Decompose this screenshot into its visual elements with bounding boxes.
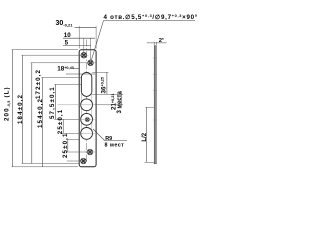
svg-text:30-0,21: 30-0,21 bbox=[56, 20, 74, 27]
svg-text:200-0,5 (L): 200-0,5 (L) bbox=[4, 86, 11, 121]
dim 25 first extension line bbox=[62, 132, 80, 134]
dim 184 line bbox=[22, 55, 24, 163]
centerline hole B bbox=[87, 62, 96, 64]
dim 25 first line bbox=[62, 119, 64, 133]
svg-text:36+0,25: 36+0,25 bbox=[101, 77, 108, 94]
dim 30 extension lines bbox=[79, 26, 96, 48]
svg-text:L/2: L/2 bbox=[142, 132, 148, 141]
svg-text:25±0,1: 25±0,1 bbox=[62, 133, 69, 158]
centerline circle3 bbox=[80, 132, 95, 134]
side view plate bar bbox=[154, 46, 156, 164]
cutout channel lines bbox=[81, 92, 92, 134]
centerline circle2 bbox=[80, 118, 95, 120]
dim 25 second line bbox=[67, 139, 69, 152]
dim 57,5 line bbox=[55, 84, 57, 119]
dim 2 line bbox=[147, 42, 167, 44]
slot (stadium cutout 18 wide) bbox=[81, 72, 92, 96]
dim 18 leader from text bbox=[73, 68, 80, 70]
dim 10 line bbox=[63, 37, 95, 39]
dim 154 extension line bbox=[41, 77, 81, 79]
svg-text:57,5±0,1: 57,5±0,1 bbox=[49, 86, 56, 119]
R9 leader line bbox=[93, 129, 127, 141]
dim L/2 extension lines bbox=[145, 107, 155, 162]
dim 200 (L) line bbox=[12, 50, 14, 167]
circle opening 2 bbox=[81, 113, 93, 125]
screw hole D bottom-left bbox=[81, 158, 87, 164]
svg-text:4 отв.∅5,5+0,3/∅9,7+0,3×90°: 4 отв.∅5,5+0,3/∅9,7+0,3×90° bbox=[104, 14, 198, 21]
small center hole bbox=[85, 118, 89, 122]
svg-text:18+0,43: 18+0,43 bbox=[57, 66, 74, 73]
slot bottom extension line bbox=[92, 93, 123, 95]
screw hole A top-left bbox=[81, 52, 87, 58]
centerline hole A bbox=[81, 54, 89, 56]
dim 25 second extension lines bbox=[22, 139, 87, 163]
dim 5 line bbox=[63, 44, 91, 46]
dim L/2 line bbox=[146, 107, 148, 162]
dim 2 extension lines bbox=[154, 42, 156, 45]
dim 10 extension lines bbox=[84, 38, 91, 59]
svg-text:3 места: 3 места bbox=[117, 91, 123, 114]
circle opening 3 bbox=[81, 127, 93, 139]
centerline hole C bbox=[86, 151, 97, 153]
circle opening 1 bbox=[81, 99, 93, 111]
dim 21 line bbox=[121, 91, 123, 108]
svg-text:25±0,1: 25±0,1 bbox=[57, 109, 64, 134]
dim 172 line bbox=[31, 63, 33, 164]
plate outline front view bbox=[79, 50, 96, 167]
dim 18 line bbox=[66, 73, 95, 75]
vertical axis centerline bbox=[86, 40, 88, 164]
side view ticks bbox=[153, 58, 157, 120]
dim 154 line bbox=[42, 78, 44, 167]
svg-text:10: 10 bbox=[64, 32, 71, 39]
dim 172 extension line bbox=[31, 62, 87, 64]
callout leader to hole B bbox=[91, 21, 103, 61]
screw hole B top-right bbox=[88, 60, 94, 66]
callout shelf line bbox=[104, 20, 196, 22]
screw hole C bottom-right bbox=[87, 149, 93, 155]
dim 200 extension lines bbox=[12, 50, 79, 167]
centerline circle1 bbox=[58, 104, 95, 106]
slot top extension line bbox=[92, 71, 108, 73]
svg-text:184±0,2: 184±0,2 bbox=[17, 94, 24, 124]
svg-text:R9: R9 bbox=[105, 136, 112, 142]
svg-text:154±0,2: 154±0,2 bbox=[37, 98, 44, 128]
dim 57,5 extension lines bbox=[54, 84, 81, 119]
circle1 right extension line bbox=[95, 104, 123, 106]
svg-text:8 мест: 8 мест bbox=[105, 142, 125, 148]
dim 30 line bbox=[75, 26, 97, 28]
svg-text:172±0,2: 172±0,2 bbox=[35, 69, 42, 99]
dim 184 extension line bbox=[22, 54, 81, 56]
dim 36 line bbox=[106, 72, 108, 94]
